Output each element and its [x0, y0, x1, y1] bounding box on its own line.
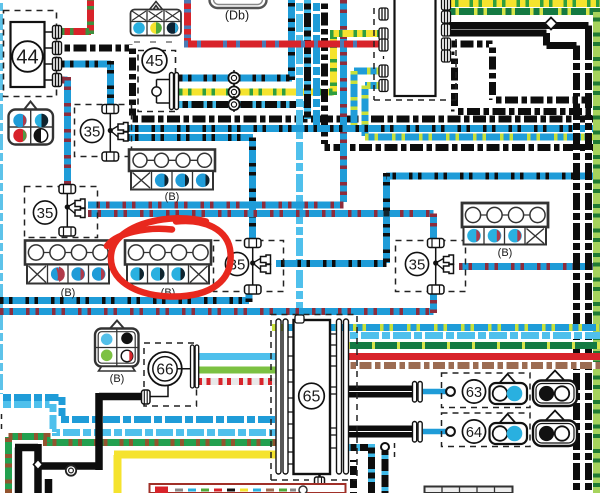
tiny labels under connector: [134, 41, 172, 43]
connector 2x2 of unit 66 body: [95, 329, 139, 367]
wire: blue/red from conn35D to right edge y266: [459, 263, 600, 270]
stray dashed ticks left edge: [1, 414, 3, 429]
relay 35D stem junction arrow: [435, 248, 437, 286]
cavity blue/black: [35, 114, 48, 127]
wire: blue rowB right part from ECU pin6 elbow to right edge: [365, 134, 600, 141]
relay 35B stem junction arrow: [66, 194, 68, 228]
connector 3x2 top: triangle: [150, 2, 163, 10]
wire: vertical blue/white from top to rowA: [313, 0, 320, 128]
unit 65 top pin: [295, 315, 304, 323]
wire: black/white unit44 pin2 to long row1 y119: [61, 45, 600, 119]
unit 65 bottom pin: [318, 474, 321, 493]
lamp 63 dashed box: [442, 373, 531, 408]
unit 45 bracket and lamp symbol: [157, 80, 171, 104]
wire: black/white elbow rowD y55 to y111: [448, 55, 592, 112]
wire: black solid rowB1 elbow to second right vertical: [446, 33, 577, 493]
svg-text:45: 45: [146, 53, 164, 70]
wire: top right yellow/green row y3: [446, 0, 600, 7]
svg-text:65: 65: [303, 389, 321, 406]
component Db capsule: [210, 0, 267, 8]
ECU dashed outline: [374, 8, 456, 100]
connector 2x2 below 44: triangle: [25, 102, 37, 110]
circle 63: [462, 380, 485, 403]
cavity black/white: [34, 129, 47, 142]
wire: yellow from bottom up and right into unit65: [114, 455, 278, 493]
svg-text:(B): (B): [498, 247, 513, 259]
svg-text:66: 66: [156, 362, 173, 379]
relay 35A bottom terminal: [102, 152, 119, 161]
bulb 64 triangle: [546, 411, 564, 421]
unit 45 dashed box: [138, 51, 176, 112]
wire: blue/green row323 from unit65 to right edge: [272, 324, 600, 331]
wire: dark green row346 from unit65 right: [347, 342, 600, 349]
wire: white/red from unit66 to unit65 y381: [198, 378, 278, 385]
wire: brown/white row366 from unit65 right: [347, 362, 600, 369]
wire: blue stub and bullet to circle 64: [423, 429, 447, 435]
svg-text:64: 64: [466, 425, 482, 441]
X cells top row: [132, 11, 180, 21]
unit 65 left rungs: [288, 337, 294, 464]
cavity white/red: [121, 350, 133, 362]
wire: blue/black unit44 pin3 down to bullet: [61, 61, 111, 104]
wire: blue/red row311 from left edge up to conn35D bottom: [0, 293, 434, 313]
connector 2x2 of unit 66: triangle: [110, 321, 124, 329]
relay 35A stem and junction: [109, 114, 111, 153]
wire: green/brown row from bottom left corner into unit65: [9, 433, 279, 493]
wire: yellow/green from 45 to ECU pin y34: [179, 33, 381, 95]
connector B lower-left 4x2: [25, 241, 111, 284]
unit 65 left ladder: [276, 319, 281, 474]
ground comb bottom left black: [15, 444, 99, 493]
unit 66 circles: [148, 352, 182, 386]
node diamond ground comb: [34, 460, 43, 470]
unit 65 right ladder: [337, 319, 342, 474]
circle 64: [462, 420, 485, 443]
relay 35B bottom terminal: [59, 227, 76, 236]
relay 35C dashed box: [214, 241, 284, 292]
connector 2x2 below 44 body: [9, 110, 54, 145]
wire: blue elbow ECU left pin5 down to rowA: [354, 71, 380, 126]
cavity blue/red: [13, 114, 26, 127]
wire: blue/red unit44 pin4 down to relay 35: [61, 77, 68, 185]
svg-text:44: 44: [16, 47, 38, 69]
unit 65 body: [294, 320, 331, 474]
wire: vertical blue/red V2 from top turning left into row205: [88, 0, 344, 205]
wire: blue/black from 45 top, up at x292: [179, 0, 292, 80]
junction square on blue crossing: [384, 211, 390, 217]
svg-text:35: 35: [84, 124, 101, 141]
wire: black from unit66 connector going left and down: [99, 393, 143, 470]
cavity black: [121, 333, 133, 345]
relay 35D dashed box: [396, 241, 466, 292]
wire: vertical cyan/white L-W from top down to unit 65: [296, 0, 303, 322]
ECU left pins: [379, 8, 388, 92]
bulb 63 triangle: [546, 371, 564, 381]
ECU right pins: [442, 0, 451, 62]
wire: black pair from unit65 to lamp 63: [346, 385, 414, 391]
lamp 64 dashed box: [442, 413, 531, 447]
relay 35B circle: [33, 201, 56, 224]
connector double-bar 64: [413, 422, 417, 443]
wire: green from unit66 to unit65 y370: [198, 367, 278, 374]
connector B right 4x2: [462, 203, 548, 245]
unit 66 link to ladder: [150, 369, 191, 397]
relay 35A top terminal: [102, 105, 119, 114]
connector B mid-top 4x2: [129, 150, 215, 190]
wire: blue/black row176 right with vertical to row263: [276, 173, 600, 264]
wire: red/green from unit 44 pin1 up to top: [61, 0, 91, 34]
svg-text:(Db): (Db): [225, 9, 249, 23]
ECU body: [395, 0, 436, 96]
unit 44 body: [11, 22, 45, 87]
relay 35B top terminal: [59, 185, 76, 194]
wire: blue/white stepped row from left edge into unit65: [0, 394, 278, 420]
wire: white dashes on right black verticals: [577, 60, 589, 493]
wire: black solid rowA1 from ECU to node and right vertical: [446, 26, 589, 493]
terminal H on 66 black wire: [142, 390, 151, 404]
unit 44 pin leads: [45, 32, 54, 80]
wire: red/blue from top into ECU pin (y44): [184, 0, 383, 44]
wire: cyan from unit66 to unit65 y356: [198, 353, 278, 360]
bottom center connector block: [425, 487, 513, 493]
cavity green: [101, 350, 113, 362]
socket 64 white+blue: [490, 423, 528, 444]
connector double-bar 63: [413, 382, 417, 403]
wire: yellow top segment overpass redraw: [330, 30, 381, 37]
wire: blue/black row300 from left edge up to conn35C bottom: [0, 291, 249, 302]
unit 65 dashed box: [271, 315, 357, 481]
wire: black pair from unit65 to lamp 64: [346, 425, 414, 431]
socket 63 triangle: [499, 374, 516, 384]
unit 44 pins: [53, 26, 62, 87]
socket 64 triangle: [499, 414, 516, 424]
cavity yellow/green: [150, 22, 162, 34]
svg-text:35: 35: [37, 205, 54, 222]
wire: black/white elbow rowC y44 to y104: [448, 44, 592, 100]
wire: black/cyan elbow from unit65 down x371: [347, 444, 372, 493]
svg-text:63: 63: [466, 385, 482, 401]
relay 35D top terminal: [428, 239, 445, 248]
connector 66 base: [99, 367, 136, 372]
relay 35B dashed box: [25, 187, 98, 238]
legend box bottom: [150, 484, 346, 493]
lamp group dashed edge fragment: [394, 443, 396, 457]
red annotation circle: [111, 218, 231, 296]
relay 35C top terminal: [245, 239, 262, 248]
bullet 63: [446, 387, 455, 396]
svg-text:(B): (B): [61, 287, 76, 299]
wire: vertical black/white from top turning right as row2 y147: [321, 0, 600, 148]
relay 35A circle: [80, 119, 103, 142]
wire: blue rowB left part from relay35A down to conn35C: [126, 138, 253, 240]
wire: blue elbow ECU left pin6 down to rowB: [365, 86, 380, 137]
bullet terminal on x385: [381, 443, 389, 451]
wire: light green vertical right edge: [593, 8, 600, 493]
wire: red row357 from unit65 right: [347, 353, 600, 360]
cavity cyan: [133, 22, 145, 34]
unit 45 connector double bars: [170, 73, 174, 110]
wire: black/white vertical x353 bottom: [350, 460, 357, 493]
wire: long blue rowA y128 from relay35A to right edge: [126, 125, 600, 132]
wire: black/cyan from 45 bottom joining vertical: [179, 101, 308, 108]
wire: blue stub and bullet to circle 63: [423, 389, 447, 395]
unit 44 circle label: [12, 41, 43, 72]
wire: vertical black/cyan from top to row1: [304, 0, 311, 119]
unit 66 dashed box: [144, 343, 197, 406]
cavity red/green: [13, 129, 26, 142]
junction ring on ground wire: [66, 465, 76, 475]
relay 35D bottom terminal: [428, 285, 445, 294]
relay 35A dashed box: [75, 105, 132, 157]
wire: red/blue row y44 overpass redraw: [184, 41, 383, 48]
cavity cyan: [101, 334, 113, 346]
unit 65 circle label: [299, 383, 325, 409]
cavity navy/cyan: [167, 22, 179, 34]
wire: blue/red row213 from relay35B to conn35D: [88, 214, 434, 240]
bullet rings on 45 wires: [228, 70, 239, 112]
bulb 63 black+white: [533, 381, 577, 407]
relay 35A plug arrow: [118, 123, 128, 142]
relay 35C circle: [225, 252, 248, 275]
wire: cyan clipped at left image edge: [0, 0, 3, 396]
connector 3x2 top body: [131, 10, 182, 36]
connector B circled 4x2: [125, 241, 211, 284]
wire: cyan/white stepped row from left edge into unit65: [0, 401, 278, 433]
bulb 64 black+white: [533, 421, 577, 447]
unit 65 right rungs: [330, 334, 336, 448]
unit 66 ladder connector: [191, 345, 195, 388]
wire: top right green/yellow row y11: [446, 8, 600, 15]
unit 45 circle label: [142, 48, 167, 73]
wire: black/cyan vertical with bullet x385 bottom: [382, 451, 389, 493]
socket 63 white+blue: [490, 383, 528, 404]
bullet 64: [446, 427, 455, 436]
svg-text:35: 35: [409, 257, 426, 274]
wire: cyan/white row336 from unit65 right: [347, 332, 600, 339]
unit 44 dashed box: [4, 11, 57, 97]
relay 35C stem junction arrow: [252, 248, 254, 286]
node diamond on black rowA1: [545, 18, 557, 30]
svg-text:(B): (B): [165, 191, 180, 203]
relay 35C bottom terminal: [245, 285, 262, 294]
svg-text:(B): (B): [110, 373, 125, 385]
relay 35D circle: [405, 252, 428, 275]
